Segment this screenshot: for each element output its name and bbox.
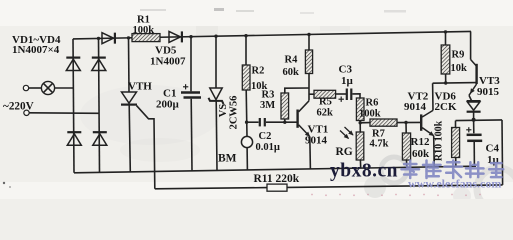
resistor R7 box (horizontal) bbox=[370, 119, 397, 126]
wire R5 to C3 bbox=[336, 93, 346, 95]
svg-text:R5: R5 bbox=[319, 97, 332, 108]
svg-text:200µ: 200µ bbox=[156, 99, 180, 111]
capacitor C1 (polarized) bbox=[181, 84, 201, 97]
label 100k (R6) bbox=[359, 109, 381, 120]
diode VD4 (bridge bottom-right) bbox=[93, 132, 107, 145]
wire right edge down bbox=[501, 120, 504, 185]
wire R12 top bbox=[405, 123, 407, 134]
svg-text:R10 100k: R10 100k bbox=[434, 120, 445, 161]
diode VD3 (bridge bottom-left) bbox=[67, 132, 81, 145]
wire R6 bottom to node bbox=[359, 121, 361, 124]
svg-text:100k: 100k bbox=[359, 109, 381, 120]
wire RG bottom to ground bbox=[359, 160, 361, 168]
junction bridge column B at top rail bbox=[97, 37, 100, 40]
diode VD1 (bridge top-left) bbox=[66, 58, 80, 71]
label R4 bbox=[285, 55, 299, 66]
svg-text:9014: 9014 bbox=[404, 101, 427, 113]
wire VS top bbox=[215, 36, 217, 88]
resistor R9 box bbox=[441, 45, 450, 74]
svg-text:R12: R12 bbox=[411, 136, 430, 148]
label R7 bbox=[372, 129, 385, 140]
wire bridge column A vertical bbox=[73, 39, 74, 173]
label 10k (R9) bbox=[451, 63, 468, 74]
junction VD6/C4/R10 node bbox=[472, 118, 476, 122]
svg-text:1µ: 1µ bbox=[341, 75, 354, 87]
label ~220V bbox=[3, 101, 34, 113]
diode D (top rail, after bridge) bbox=[102, 33, 115, 44]
terminal AC input upper bbox=[23, 85, 28, 90]
label 60k bbox=[283, 67, 300, 78]
junction R6/RG node bbox=[359, 121, 362, 124]
resistor R12 box bbox=[402, 133, 410, 160]
wire R9 top bbox=[445, 32, 447, 45]
wire R9 bottom to base wire bbox=[445, 74, 447, 83]
photoresistor RG box bbox=[356, 132, 364, 160]
junction VS at rail bbox=[214, 35, 217, 38]
wire node to RG bbox=[359, 123, 361, 132]
wire gate rail right bbox=[287, 185, 503, 188]
wire R3 top to collector node bbox=[285, 88, 309, 93]
wire C1 top bbox=[190, 37, 192, 92]
label 1u (C4) bbox=[487, 154, 500, 166]
wire top positive rail bbox=[73, 31, 471, 39]
svg-text:62k: 62k bbox=[317, 108, 334, 119]
capacitor C4 (polarized) bbox=[466, 127, 482, 141]
wire VT2 collector to VT3 base bbox=[433, 82, 476, 85]
svg-text:C4: C4 bbox=[486, 143, 500, 155]
wire lamp to bridge column A bbox=[55, 87, 74, 89]
junction R3 bottom at base wire bbox=[283, 121, 286, 124]
terminal AC input lower bbox=[24, 110, 29, 115]
wire terminal2 to bridge column B bbox=[29, 112, 99, 115]
svg-text:1N4007: 1N4007 bbox=[150, 56, 186, 68]
wire C2 right to VT1 base bbox=[266, 121, 297, 123]
label R3 bbox=[262, 90, 275, 101]
label 9014 (VT2) bbox=[404, 101, 427, 113]
svg-text:60k: 60k bbox=[412, 148, 430, 160]
label 200u bbox=[156, 99, 180, 111]
label R5 bbox=[319, 97, 332, 108]
svg-text:BM: BM bbox=[218, 153, 237, 165]
label 9015 bbox=[477, 86, 500, 98]
label 100k bbox=[133, 25, 155, 36]
svg-text:R11 220k: R11 220k bbox=[254, 173, 300, 185]
resistor R3 box bbox=[281, 93, 289, 119]
wire R12 bottom to ground bbox=[406, 160, 408, 167]
wire R2 bottom to BM bbox=[245, 90, 248, 137]
svg-text:9015: 9015 bbox=[477, 86, 500, 98]
wire C1 bottom to ground bbox=[190, 99, 193, 171]
wire top-right corner down to VT3 emitter bbox=[470, 31, 472, 59]
wire VTH anode bbox=[128, 38, 131, 92]
svg-text:C2: C2 bbox=[259, 131, 272, 142]
capacitor C3 (polarized) bbox=[339, 89, 352, 102]
svg-text:2CK: 2CK bbox=[435, 101, 457, 113]
label 62k bbox=[317, 108, 334, 119]
wire VTH gate bbox=[137, 106, 155, 189]
label R2 bbox=[252, 66, 265, 77]
label VTH bbox=[128, 81, 152, 93]
junction R2/C2 node bbox=[245, 121, 248, 124]
junction VTH anode at rail bbox=[127, 36, 130, 39]
wire gate rail left bbox=[155, 188, 267, 189]
svg-text:4.7k: 4.7k bbox=[370, 139, 389, 150]
wire R7 to VT2 base bbox=[397, 121, 421, 123]
diode VD6 symbol bbox=[467, 101, 481, 112]
label VT3 bbox=[479, 75, 500, 87]
wire VD6 cathode to node bbox=[473, 112, 475, 120]
svg-text:R6: R6 bbox=[366, 98, 379, 109]
label R1 bbox=[137, 15, 150, 26]
resistor R11 box bbox=[267, 184, 287, 191]
wire VT1 emitter to ground bbox=[309, 136, 312, 169]
label VS (rotated) bbox=[218, 104, 229, 118]
resistor R10 box bbox=[452, 128, 460, 158]
watermark ybx8.cn bbox=[330, 161, 398, 182]
light arrows into RG bbox=[340, 127, 353, 139]
wire C2 left bbox=[247, 121, 259, 123]
watermark www.elecfans.com bbox=[408, 177, 501, 191]
label C1 bbox=[163, 88, 176, 100]
svg-text:R9: R9 bbox=[452, 50, 465, 61]
scan noise specks bbox=[3, 8, 481, 196]
svg-text:ybx8.cn: ybx8.cn bbox=[330, 161, 398, 182]
wire ground rail bbox=[74, 166, 476, 173]
diode VD5 bbox=[169, 31, 182, 42]
junction R9 at base wire bbox=[444, 81, 447, 84]
wire terminal1 to lamp bbox=[29, 87, 42, 89]
label C3 bbox=[339, 64, 353, 76]
svg-text:~220V: ~220V bbox=[3, 101, 34, 113]
label 60k (R12) bbox=[412, 148, 430, 160]
resistor R5 box bbox=[314, 90, 336, 98]
label VT2 bbox=[408, 91, 429, 103]
svg-text:C3: C3 bbox=[339, 64, 353, 76]
label 1u bbox=[341, 75, 354, 87]
wire VS bottom to ground bbox=[215, 101, 218, 170]
svg-text:RG: RG bbox=[336, 146, 353, 158]
resistor R1 box bbox=[132, 34, 160, 42]
resistor R6 box bbox=[356, 98, 364, 121]
label R9 bbox=[452, 50, 465, 61]
gray watermark logo circles bbox=[364, 157, 513, 210]
junction R9 at rail bbox=[444, 30, 447, 33]
label VD1~VD4 bbox=[12, 34, 61, 46]
label R10 100k (rotated) bbox=[434, 120, 445, 161]
svg-text:3M: 3M bbox=[260, 100, 275, 111]
svg-text:VS: VS bbox=[218, 104, 229, 118]
wire C4 top bbox=[473, 120, 475, 133]
label 1N4007 bbox=[150, 56, 186, 68]
svg-text:0.01µ: 0.01µ bbox=[256, 142, 280, 153]
svg-text:www.elecfans.com: www.elecfans.com bbox=[408, 177, 501, 191]
label BM bbox=[218, 153, 237, 165]
label VT1 bbox=[308, 124, 329, 136]
wire bridge column B vertical bbox=[99, 38, 100, 172]
zener diode VS symbol bbox=[209, 88, 224, 104]
svg-text:100k: 100k bbox=[133, 25, 155, 36]
label 3M bbox=[260, 100, 275, 111]
junction collector node to R5 bbox=[309, 93, 314, 95]
svg-text:9014: 9014 bbox=[305, 135, 328, 147]
label R12 bbox=[411, 136, 430, 148]
junction R2 at rail bbox=[244, 34, 247, 37]
label R11 220k bbox=[254, 173, 300, 185]
microphone BM (electret) bbox=[241, 136, 252, 147]
svg-text:R3: R3 bbox=[262, 90, 275, 101]
label VD5 bbox=[155, 45, 177, 57]
wire C4 bottom to ground bbox=[473, 142, 475, 166]
transistor VT1 symbol (NPN) bbox=[298, 101, 310, 137]
label 9014 bbox=[305, 135, 328, 147]
resistor R2 box bbox=[242, 65, 250, 90]
svg-text:R4: R4 bbox=[285, 55, 299, 66]
wire C3 right to R6 bbox=[353, 94, 361, 98]
label VD6 bbox=[435, 91, 457, 103]
label RG bbox=[336, 146, 353, 158]
label C2 bbox=[259, 131, 272, 142]
wire R10 bottom to ground bbox=[455, 158, 457, 167]
resistor R4 box bbox=[305, 50, 312, 74]
label R6 bbox=[366, 98, 379, 109]
capacitor C2 bbox=[260, 118, 265, 126]
junction R12 at base wire bbox=[404, 121, 407, 124]
transistor VT3 symbol (PNP) bbox=[469, 60, 477, 96]
lamp EL (circle with X) bbox=[41, 81, 54, 94]
label 0.01u bbox=[256, 142, 280, 153]
wire R2 top bbox=[245, 36, 247, 65]
svg-text:60k: 60k bbox=[283, 67, 300, 78]
wire VT2 emitter to ground bbox=[433, 136, 436, 167]
wire node to R7 bbox=[360, 122, 370, 124]
wire node horizontal bbox=[456, 119, 503, 122]
svg-text:VTH: VTH bbox=[128, 81, 152, 93]
wire R4 bottom to collector node bbox=[308, 74, 310, 101]
watermark CJK text (elecfans) bbox=[402, 161, 504, 179]
svg-text:R1: R1 bbox=[137, 15, 150, 26]
svg-text:R2: R2 bbox=[252, 66, 265, 77]
svg-text:2CW56: 2CW56 bbox=[229, 96, 240, 130]
wire R3 bottom bbox=[284, 119, 286, 122]
label 1N4007 x4 bbox=[12, 44, 60, 56]
wire VT2 collector up bbox=[432, 83, 434, 110]
junction C1 at rail bbox=[189, 35, 192, 38]
svg-text:1N4007×4: 1N4007×4 bbox=[12, 44, 60, 56]
wire VT3 collector to VD6 bbox=[469, 95, 472, 100]
transistor VT2 symbol (NPN) bbox=[421, 110, 433, 135]
wire R10 top bbox=[455, 121, 457, 128]
wire R4 top bbox=[308, 35, 310, 51]
junction R4 at rail bbox=[307, 33, 310, 36]
label C4 bbox=[486, 143, 500, 155]
label 4.7k bbox=[370, 139, 389, 150]
label 2CW56 (rotated) bbox=[229, 96, 240, 130]
wire VTH cathode to ground bbox=[129, 105, 130, 172]
thyristor VTH symbol bbox=[121, 92, 137, 105]
wire BM bottom to ground bbox=[246, 148, 248, 170]
label 10k bbox=[251, 81, 268, 92]
diode VD2 (bridge top-right) bbox=[92, 58, 106, 71]
svg-text:10k: 10k bbox=[451, 63, 468, 74]
label 2CK bbox=[435, 101, 457, 113]
